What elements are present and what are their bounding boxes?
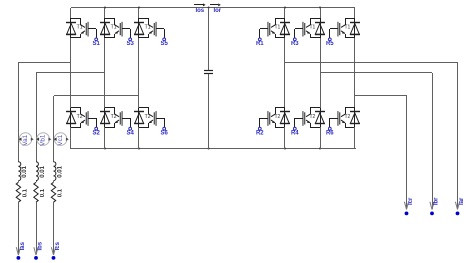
wire: leg 1 right bridge from bus [284, 8, 286, 18]
svg-text:Va1: Va1 [22, 134, 29, 145]
gate wire of R3 [295, 29, 304, 39]
svg-text:Icr: Icr [408, 197, 414, 205]
gate wire of R2 [260, 118, 269, 127]
junction on bottom bus at x=285 [284, 148, 286, 150]
inductor L 0.01 in branch Vb1 [36, 162, 38, 181]
wire: leg 3 right bridge to bottom bus [354, 127, 356, 149]
svg-text:Vc1: Vc1 [57, 134, 64, 145]
gate port R1 [258, 38, 261, 41]
IGBT/diode switch S4 (T2) [100, 108, 122, 128]
svg-text:S5: S5 [161, 41, 169, 47]
wire: leg 1 left bridge midsection [70, 38, 72, 108]
wire: leg 3 right bridge from bus [354, 8, 356, 18]
wire: leg 3 right bridge midsection [354, 38, 356, 108]
gate port R4 [293, 127, 296, 130]
svg-text:R3: R3 [291, 41, 299, 47]
wire: phase tap left leg 2 [36, 72, 105, 74]
gate port S2 [95, 127, 98, 130]
wire: branch Vb1 vertical [36, 73, 38, 162]
gate port S4 [129, 127, 132, 130]
svg-text:T1: T1 [77, 25, 83, 31]
svg-text:T1: T1 [274, 25, 280, 31]
current probe arrow Icr [404, 202, 408, 210]
wire: leg 2 left bridge midsection [104, 38, 106, 108]
wire: phase tap right leg 1 [285, 62, 458, 64]
current arrow Ior [210, 3, 221, 6]
wire: phase tap left leg 1 [18, 62, 71, 64]
gate wire of R6 [330, 118, 339, 127]
wire: phase tap right leg 3 [355, 95, 406, 97]
gate wire of S3 [122, 29, 131, 39]
wire: branch Va1 to probe [18, 202, 20, 254]
current probe arrow Ibs [34, 247, 38, 255]
svg-text:T2: T2 [111, 114, 117, 120]
svg-text:R6: R6 [326, 130, 334, 136]
wire: output branch to probe Icr [406, 95, 408, 209]
resistor R 0.1 in branch Va1 [16, 182, 20, 202]
wire: capacitor bottom lead [208, 74, 210, 149]
wire: branch Va1 vertical [18, 62, 20, 162]
svg-text:Vb1: Vb1 [39, 134, 46, 146]
svg-text:R4: R4 [291, 130, 299, 136]
svg-text:Ias: Ias [20, 241, 26, 250]
gate wire of R4 [295, 118, 304, 127]
svg-text:S2: S2 [93, 130, 101, 136]
svg-text:T1: T1 [145, 25, 151, 31]
IGBT/diode switch S1 (T1) [66, 18, 88, 38]
junction on top bus at x=285 [284, 7, 286, 9]
wire: phase tap left leg 3 [54, 95, 139, 97]
junction on top bus at x=208.6 [208, 7, 210, 9]
probe terminal dot Iar [456, 212, 460, 216]
IGBT/diode switch R3 (T1) [303, 18, 325, 38]
current probe arrow Ibr [430, 202, 434, 210]
IGBT/diode switch S5 (T1) [134, 18, 156, 38]
wire: branch Vc1 to probe [53, 202, 55, 254]
svg-text:Iar: Iar [459, 197, 465, 205]
IGBT/diode switch S2 (T2) [66, 108, 88, 128]
gate wire of S6 [156, 118, 165, 127]
wire: bottom DC bus (negative rail) [71, 148, 356, 150]
svg-text:0.1: 0.1 [58, 188, 64, 197]
svg-text:Ibs: Ibs [38, 241, 44, 250]
wire: leg 2 left bridge to bottom bus [104, 127, 106, 149]
gate wire of S2 [88, 118, 97, 127]
svg-text:0.1: 0.1 [23, 188, 29, 197]
wire: capacitor top lead [208, 8, 210, 70]
inductor L 0.01 in branch Va1 [18, 162, 20, 181]
current probe arrow Ics [51, 247, 55, 255]
wire: leg 2 right bridge to bottom bus [320, 127, 322, 149]
IGBT/diode switch R5 (T1) [338, 18, 360, 38]
svg-text:S6: S6 [161, 130, 169, 136]
junction on bottom bus at x=208.6 [208, 148, 210, 150]
svg-text:T1: T1 [344, 25, 350, 31]
junction on bottom bus at x=105 [104, 148, 106, 150]
svg-text:0.01: 0.01 [22, 165, 28, 177]
wire: top DC bus (positive rail) [71, 7, 355, 9]
svg-text:R2: R2 [256, 130, 264, 136]
svg-text:T2: T2 [274, 114, 280, 120]
svg-text:Ior: Ior [213, 8, 221, 14]
IGBT/diode switch R2 (T2) [268, 108, 290, 128]
gate wire of S4 [122, 118, 131, 127]
AC voltage source Vb1 [36, 133, 51, 146]
wire: leg 1 left bridge from bus [70, 8, 72, 18]
gate wire of R5 [330, 29, 339, 39]
probe terminal dot Ics [52, 256, 56, 260]
gate wire of S1 [88, 29, 97, 39]
IGBT/diode switch R6 (T2) [338, 108, 360, 128]
probe terminal dot Ibr [430, 212, 434, 216]
svg-text:Ios: Ios [195, 8, 204, 14]
wire: leg 1 right bridge midsection [284, 38, 286, 108]
inductor L 0.01 in branch Vc1 [54, 162, 56, 181]
wire: leg 3 left bridge from bus [138, 8, 140, 18]
resistor R 0.1 in branch Vc1 [51, 182, 55, 202]
current probe arrow Iar [455, 202, 459, 210]
current probe arrow Ias [16, 247, 20, 255]
svg-text:R5: R5 [326, 41, 334, 47]
gate wire of R1 [260, 29, 269, 39]
svg-text:T2: T2 [344, 114, 350, 120]
gate port R3 [293, 38, 296, 41]
wire: link L-R [53, 181, 55, 182]
junction on bottom bus at x=320 [319, 148, 321, 150]
gate port R6 [328, 127, 331, 130]
wire: output branch to probe Ibr [432, 73, 434, 209]
junction on top bus at x=139 [138, 7, 140, 9]
probe terminal dot Ibs [34, 256, 38, 260]
probe terminal dot Icr [405, 212, 409, 216]
svg-text:S4: S4 [127, 130, 135, 136]
wire: leg 2 right bridge midsection [320, 38, 322, 108]
IGBT/diode switch R4 (T2) [303, 108, 325, 128]
current arrow Ios [194, 3, 206, 6]
gate port S5 [163, 38, 166, 41]
wire: leg 1 left bridge to bottom bus [70, 127, 72, 149]
junction on top bus at x=105 [104, 7, 106, 9]
svg-text:Ics: Ics [55, 241, 61, 250]
wire: link L-R [36, 181, 38, 182]
IGBT/diode switch S6 (T2) [134, 108, 156, 128]
gate port S6 [163, 127, 166, 130]
gate port S1 [95, 38, 98, 41]
IGBT/diode switch R1 (T1) [268, 18, 290, 38]
wire: output branch to probe Iar [457, 62, 459, 209]
wire: phase tap right leg 2 [320, 72, 432, 74]
svg-text:T2: T2 [309, 114, 315, 120]
gate port S3 [129, 38, 132, 41]
wire: leg 3 left bridge to bottom bus [138, 127, 140, 149]
wire: branch Vc1 vertical [53, 96, 55, 162]
capacitor C (DC link) [204, 71, 213, 74]
wire: leg 2 left bridge from bus [104, 8, 106, 18]
svg-text:Ibr: Ibr [434, 197, 440, 205]
wire: leg 2 right bridge from bus [320, 8, 322, 18]
gate port R5 [328, 38, 331, 41]
svg-text:S1: S1 [93, 41, 101, 47]
svg-text:0.01: 0.01 [40, 165, 46, 177]
wire: leg 3 left bridge midsection [138, 38, 140, 108]
svg-text:0.01: 0.01 [57, 165, 63, 177]
AC voltage source Vc1 [54, 133, 69, 146]
AC voltage source Va1 [19, 133, 34, 146]
wire: branch Vb1 to probe [36, 202, 38, 254]
junction on bottom bus at x=139 [138, 148, 140, 150]
probe terminal dot Ias [17, 256, 21, 260]
gate port R2 [258, 127, 261, 130]
svg-text:T2: T2 [77, 114, 83, 120]
junction on top bus at x=320 [319, 7, 321, 9]
svg-text:S3: S3 [127, 41, 135, 47]
wire: leg 1 right bridge to bottom bus [284, 127, 286, 149]
svg-text:T1: T1 [111, 25, 117, 31]
svg-text:R1: R1 [256, 41, 264, 47]
wire: link L-R [18, 181, 20, 182]
svg-text:T2: T2 [145, 114, 151, 120]
svg-text:0.1: 0.1 [40, 188, 46, 197]
resistor R 0.1 in branch Vb1 [34, 182, 38, 202]
IGBT/diode switch S3 (T1) [100, 18, 122, 38]
gate wire of S5 [156, 29, 165, 39]
svg-text:T1: T1 [309, 25, 315, 31]
